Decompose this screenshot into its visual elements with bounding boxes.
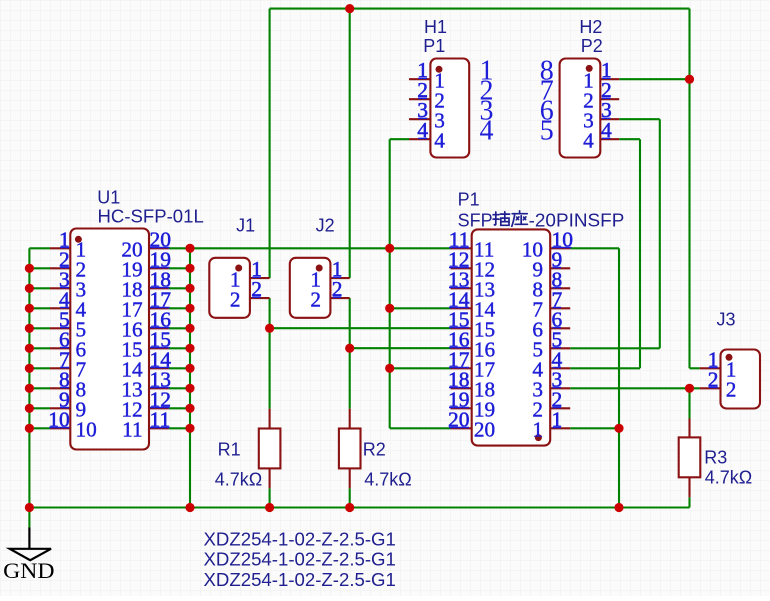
wire R3 top wire [688, 388, 690, 418]
junction U1 left bus pin6 [25, 344, 34, 353]
junction U1 right bus pin18 [185, 284, 194, 293]
wire U1 pin4 stub wire [29, 307, 50, 309]
svg-text:5: 5 [540, 116, 554, 147]
svg-text:4.7kΩ: 4.7kΩ [215, 470, 262, 490]
U1 pin 16 (right) [149, 327, 169, 329]
wire P1 pin5 wire [570, 347, 660, 349]
wire P1 pin4 wire [570, 367, 640, 369]
svg-text:4.7kΩ: 4.7kΩ [705, 468, 752, 488]
wire R2 top wire [349, 348, 351, 409]
wire P1 pin14 wire [390, 307, 451, 309]
resistor R2 bottom lead [349, 468, 351, 488]
svg-text:SFP: SFP [458, 211, 493, 231]
svg-text:J3: J3 [717, 309, 736, 329]
wire P1 pin10 wire [570, 247, 619, 249]
P1 pin 11 (left) [451, 247, 472, 249]
wire R1 top wire [269, 328, 271, 409]
junction U1 left bus pin7 [25, 364, 34, 373]
wire H2 pin3 vertical [659, 119, 661, 348]
connector H2 P2 body [560, 59, 601, 158]
junction U1 right bus pin11 [185, 424, 194, 433]
wire J1 pin1 vertical [269, 9, 271, 279]
wire P1 pin3 wire to J3 pin2 [570, 387, 700, 389]
J1 pin 2 [250, 297, 270, 299]
resistor R3 bottom lead [688, 477, 690, 497]
P1 pin1 marker [535, 434, 542, 441]
svg-text:2: 2 [310, 287, 321, 311]
wire U1 pin5 stub wire [29, 327, 50, 329]
wire U1 pin12 stub wire [169, 407, 190, 409]
wire H2 pin3 wire [619, 118, 660, 120]
svg-text:XDZ254-1-02-Z-2.5-G1: XDZ254-1-02-Z-2.5-G1 [204, 570, 396, 590]
H2 pin 3 [600, 118, 619, 120]
junction U1 right bus pin19 [185, 264, 194, 273]
junction H1.4 net row7 [385, 364, 394, 373]
wire P1 pin1 wire [570, 427, 619, 429]
svg-text:R3: R3 [704, 448, 727, 468]
svg-text:4: 4 [434, 129, 445, 153]
connector H1 P1 body [430, 59, 469, 158]
P1 pin 5 (right) [550, 347, 570, 349]
U1 pin1 marker [75, 236, 82, 243]
U1 pin 18 (right) [149, 287, 169, 289]
P1 value label CJK cha glyph [493, 212, 510, 226]
J1 pin 1 [250, 277, 270, 279]
U1 pin 2 (left) [50, 267, 70, 269]
junction U1 right bus pin12 [185, 404, 194, 413]
H2 pin 2 [600, 98, 619, 100]
wire H2 pin4 wire [619, 138, 640, 140]
wire P1 pin17 wire [390, 367, 451, 369]
resistor R1 top lead [269, 409, 271, 429]
resistor R2 body [339, 429, 361, 469]
junction J2.2 node [345, 344, 354, 353]
J3 pin 2 [700, 387, 721, 389]
wire U1 pin11 stub wire [169, 427, 190, 429]
svg-text:4.7kΩ: 4.7kΩ [364, 470, 411, 490]
svg-text:U1: U1 [97, 188, 120, 208]
J3 pin 1 [700, 367, 721, 369]
junction U1 left bus pin8 [25, 384, 34, 393]
wire U1 right bus [189, 248, 191, 507]
wire P1 pin15 wire [270, 327, 451, 329]
P1 pin 10 (right) [550, 247, 570, 249]
wire U1 pin2 stub wire [29, 267, 50, 269]
junction U1 left bus pin9 [25, 404, 34, 413]
junction H1.4 net row1 [385, 244, 394, 253]
ground symbol [10, 528, 51, 561]
P1 pin 13 (left) [451, 287, 472, 289]
H2 pin 4 [600, 138, 619, 140]
junction U1 right bus pin14 [185, 364, 194, 373]
J2 pin 2 [330, 297, 349, 299]
P1 pin 12 (left) [451, 267, 472, 269]
connector P1 SFP socket body [472, 229, 551, 445]
wire P1 pin20 wire [390, 427, 451, 429]
connector J3 body [721, 350, 761, 409]
junction U1 left bus pin10 [25, 424, 34, 433]
svg-text:HC-SFP-01L: HC-SFP-01L [98, 207, 204, 227]
P1 pin 1 (right) [550, 427, 570, 429]
U1 pin 10 (left) [50, 427, 70, 429]
wire GND stem [28, 508, 30, 529]
junction U1 right bus pin20 [185, 244, 194, 253]
connector J2 body [290, 258, 331, 318]
U1 pin 3 (left) [50, 287, 70, 289]
resistor R1 body [259, 429, 281, 469]
U1 pin 6 (left) [50, 347, 70, 349]
wire H1 pin4 connection [390, 138, 409, 140]
wire J1 pin2 vertical [269, 298, 271, 328]
svg-text:H1: H1 [424, 17, 447, 37]
junction U1 left bus pin3 [25, 284, 34, 293]
junction U1 right bus pin15 [185, 344, 194, 353]
junction U1 right bus pin16 [185, 324, 194, 333]
P1 pin 15 (left) [451, 327, 472, 329]
svg-text:10: 10 [76, 418, 97, 442]
P1 pin 20 (left) [451, 427, 472, 429]
svg-text:11: 11 [122, 418, 143, 442]
resistor R1 bottom lead [269, 468, 271, 488]
U1 pin 15 (right) [149, 347, 169, 349]
P1 pin 14 (left) [451, 307, 472, 309]
wire H1 pin4 vertical [389, 139, 391, 428]
wire top horizontal net J1.1/J2.1/H2.1/J3.1 [270, 8, 690, 10]
svg-text:H2: H2 [579, 17, 602, 37]
wire R1 bottom wire [269, 488, 271, 507]
wire net row1: U1.20 to P1.11 [190, 247, 451, 249]
wire U1 pin3 stub wire [29, 287, 50, 289]
svg-text:GND: GND [3, 558, 54, 583]
svg-text:1: 1 [532, 418, 543, 442]
U1 pin 17 (right) [149, 307, 169, 309]
svg-text:XDZ254-1-02-Z-2.5-G1: XDZ254-1-02-Z-2.5-G1 [204, 529, 396, 549]
P1 pin 3 (right) [550, 387, 570, 389]
U1 pin 13 (right) [149, 387, 169, 389]
P1 pin 9 (right) [550, 267, 570, 269]
wire U1 pin16 stub wire [169, 327, 190, 329]
resistor R2 top lead [349, 409, 351, 429]
wire U1 pin6 stub wire [29, 347, 50, 349]
H1 pin 1 [409, 78, 430, 80]
U1 pin 8 (left) [50, 387, 70, 389]
U1 pin 19 (right) [149, 267, 169, 269]
svg-text:-20PINSFP: -20PINSFP [529, 211, 625, 231]
H1 pin 3 [409, 118, 430, 120]
P1 pin 8 (right) [550, 287, 570, 289]
wire J2 pin2 vertical [349, 298, 351, 348]
P1 pin 2 (right) [550, 407, 570, 409]
junction U1 left bus pin4 [25, 304, 34, 313]
junction rail x619 [614, 503, 623, 512]
J3 pin1 marker [726, 354, 733, 361]
U1 pin 20 (right) [149, 247, 169, 249]
junction top J2 [345, 4, 354, 13]
junction rail U1 right bus [185, 503, 194, 512]
svg-text:P1: P1 [458, 190, 480, 210]
svg-text:2: 2 [230, 287, 241, 311]
wire U1 pin15 stub wire [169, 347, 190, 349]
junction J1.2 node [265, 324, 274, 333]
svg-text:J1: J1 [236, 216, 255, 236]
U1 pin 5 (left) [50, 327, 70, 329]
U1 pin 12 (right) [149, 407, 169, 409]
U1 pin 1 (left) [50, 247, 70, 249]
H2 pin 1 [600, 78, 619, 80]
junction U1 left bus pin5 [25, 324, 34, 333]
wire bottom GND rail [29, 506, 689, 508]
P1 pin 6 (right) [550, 327, 570, 329]
wire H2 pin1 to right vertical [619, 78, 689, 80]
J1 pin1 marker [235, 265, 242, 272]
wire P1 pin10 vertical to rail [618, 248, 620, 507]
wire U1 pin9 stub wire [29, 407, 50, 409]
J2 pin1 marker [316, 265, 323, 272]
wire U1 pin8 stub wire [29, 387, 50, 389]
wire U1 pin17 stub wire [169, 307, 190, 309]
svg-text:R1: R1 [218, 439, 241, 459]
svg-text:4: 4 [480, 116, 494, 147]
wire U1 pin1 stub wire [29, 247, 50, 249]
P1 pin 19 (left) [451, 407, 472, 409]
P1 pin 18 (left) [451, 387, 472, 389]
P1 pin 4 (right) [550, 367, 570, 369]
wire U1 pin20 stub wire [169, 247, 190, 249]
svg-text:4: 4 [583, 129, 594, 153]
U1 pin 9 (left) [50, 407, 70, 409]
P1 pin 16 (left) [451, 347, 472, 349]
junction P1.1 node [614, 424, 623, 433]
P1 pin 7 (right) [550, 307, 570, 309]
U1 pin 11 (right) [149, 427, 169, 429]
U1 pin 14 (right) [149, 367, 169, 369]
wire U1 pin13 stub wire [169, 387, 190, 389]
junction rail R2 [345, 503, 354, 512]
junction U1 right bus pin13 [185, 384, 194, 393]
IC U1 HC-SFP-01L body [70, 229, 149, 450]
wire U1 pin7 stub wire [29, 367, 50, 369]
svg-text:XDZ254-1-02-Z-2.5-G1: XDZ254-1-02-Z-2.5-G1 [204, 550, 396, 570]
wire U1 left bus [28, 248, 30, 507]
junction J3.2 node [685, 384, 694, 393]
U1 pin 4 (left) [50, 307, 70, 309]
junction H1.4 net row4 [385, 304, 394, 313]
junction U1 right bus pin17 [185, 304, 194, 313]
wire U1 pin18 stub wire [169, 287, 190, 289]
H2 pin1 marker [586, 65, 593, 72]
wire right vertical to J3 pin1 [688, 9, 690, 369]
P1 value label CJK zuo glyph [512, 211, 528, 227]
wire U1 pin19 stub wire [169, 267, 190, 269]
svg-text:R2: R2 [363, 439, 386, 459]
svg-text:P1: P1 [423, 36, 445, 56]
wire U1 pin10 stub wire [29, 427, 50, 429]
J2 pin 1 [330, 277, 349, 279]
wire P1 pin16 wire [350, 347, 451, 349]
wire H2 pin4 vertical [639, 139, 641, 368]
P1 pin 17 (left) [451, 367, 472, 369]
svg-text:20: 20 [474, 418, 495, 442]
H1 pin1 marker [436, 66, 443, 73]
junction H2 pin1 [685, 75, 694, 84]
resistor R3 top lead [688, 419, 690, 438]
H1 pin 2 [409, 98, 430, 100]
junction rail GND tap [25, 503, 34, 512]
wire J2 pin1 vertical [349, 9, 351, 279]
svg-text:J2: J2 [316, 216, 335, 236]
wire R2 bottom wire [349, 488, 351, 507]
wire R3 bottom vertical [688, 497, 690, 507]
U1 pin 7 (left) [50, 367, 70, 369]
resistor R3 body [679, 437, 701, 477]
connector J1 body [209, 258, 250, 318]
wire U1 pin14 stub wire [169, 367, 190, 369]
svg-text:2: 2 [726, 378, 737, 402]
junction rail R1 [265, 503, 274, 512]
svg-text:P2: P2 [581, 36, 603, 56]
H1 pin 4 [409, 138, 430, 140]
wire J3 pin1 horizontal [690, 367, 700, 369]
junction U1 left bus pin2 [25, 264, 34, 273]
